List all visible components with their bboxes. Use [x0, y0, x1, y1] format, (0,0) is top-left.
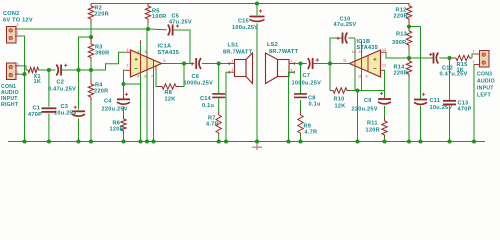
svg-text:0.1u: 0.1u	[309, 102, 322, 108]
connector CON3 audio input left	[475, 51, 490, 68]
svg-text:1: 1	[473, 60, 475, 64]
wire CON3 pin1 to ground	[473, 65, 476, 142]
svg-text:2: 2	[232, 60, 234, 64]
plus mark C3	[74, 106, 77, 109]
speaker LS2 8R.7WATT	[266, 53, 295, 84]
svg-text:0.1u: 0.1u	[202, 103, 215, 109]
power pin vertical 3 of IC1A from supply node	[146, 29, 148, 142]
svg-text:390R: 390R	[95, 51, 109, 57]
plus and minus marks IC1A	[135, 58, 138, 69]
svg-text:1: 1	[17, 71, 19, 75]
wire bias node to C11 branch	[409, 27, 421, 99]
pin end ticks LS2	[293, 62, 295, 74]
op-amp IC1A STA435	[131, 50, 162, 77]
junction on ground rail	[151, 139, 155, 143]
svg-text:0.47u.25V: 0.47u.25V	[48, 86, 76, 92]
power pin vertical of IC1B (nc)	[361, 40, 363, 90]
svg-text:220R: 220R	[95, 12, 109, 18]
svg-text:12K: 12K	[335, 104, 346, 110]
connector CON1 audio input right	[7, 63, 20, 80]
capacitor C6 1000u.25V output	[196, 58, 230, 69]
svg-text:1000u.25V: 1000u.25V	[184, 81, 214, 87]
wire CON2 ground down to bottom rail	[19, 36, 25, 142]
wire bias to IC1B pin 13	[385, 52, 409, 58]
svg-text:220R: 220R	[94, 89, 108, 95]
capacitor C7 1000u.25V output	[301, 58, 346, 69]
svg-text:C6: C6	[192, 74, 200, 80]
wire top supply rail	[91, 3, 409, 5]
svg-text:LS1: LS1	[228, 42, 239, 48]
node speaker/zobel junction	[217, 61, 221, 65]
junction on ground rail	[47, 139, 51, 143]
feedback resistor R10 12K	[330, 64, 385, 94]
wire bottom ground rail	[8, 141, 485, 143]
node output junction C5 bootstrap	[182, 61, 186, 65]
svg-text:C2: C2	[57, 80, 65, 86]
svg-text:1: 1	[232, 68, 234, 72]
svg-text:12K: 12K	[165, 97, 176, 103]
svg-text:390R: 390R	[392, 40, 406, 46]
svg-text:C9: C9	[364, 98, 372, 104]
capacitor C1 470P	[41, 70, 56, 142]
svg-text:AUDIO: AUDIO	[477, 79, 495, 85]
resistor R6 120R	[121, 116, 126, 142]
svg-text:C14: C14	[200, 96, 212, 102]
resistor R3 390R	[88, 37, 93, 70]
pin 2 stub of IC1A	[126, 69, 131, 71]
svg-text:STA435: STA435	[158, 50, 180, 56]
wire X1 to input node	[39, 69, 49, 71]
svg-text:1K: 1K	[34, 79, 42, 85]
svg-text:10u.25V: 10u.25V	[430, 105, 453, 111]
plus mark C11	[422, 93, 425, 96]
pin end ticks LS1	[228, 62, 230, 74]
plus mark C10	[336, 37, 339, 40]
junction on ground rail	[22, 139, 26, 143]
pin 1 stub of IC1A	[126, 51, 131, 53]
node R2/R3 bias junction	[89, 35, 93, 39]
svg-text:100R: 100R	[152, 14, 166, 20]
svg-text:C3: C3	[61, 104, 69, 110]
ground pin vertical of IC1A	[153, 60, 155, 142]
resistor R15 1K	[450, 54, 475, 61]
node bias bypass junction	[76, 68, 80, 72]
node CON1 pin1 ground junction	[22, 72, 26, 76]
svg-text:47u.25V: 47u.25V	[169, 20, 192, 26]
capacitor C3 10u.25V	[72, 70, 85, 142]
junction C15 at ground rail	[255, 139, 259, 143]
pin segments inside IC1B	[355, 55, 368, 72]
resistor X1 1K	[28, 67, 39, 72]
svg-text:100u.25V: 100u.25V	[232, 25, 258, 31]
power pin vertical of IC1B from C10	[354, 38, 356, 91]
svg-text:8R.7WATT: 8R.7WATT	[269, 49, 299, 55]
node output junction right	[328, 61, 332, 65]
node supply/R5/C5 junction	[146, 27, 150, 31]
svg-text:2: 2	[17, 63, 19, 67]
plus mark C6	[191, 62, 194, 65]
pin 13 stub of IC1B	[381, 51, 386, 53]
wire 6-12V supply from CON2 to R5 node	[19, 28, 148, 30]
junction on ground rail	[355, 139, 359, 143]
svg-text:C15: C15	[238, 19, 249, 25]
svg-text:R10: R10	[334, 97, 345, 103]
junction on ground rail	[76, 139, 80, 143]
capacitor C12 0.47u.25V	[409, 53, 450, 64]
junction on ground rail	[298, 139, 302, 143]
plus and minus marks IC1B	[373, 58, 376, 69]
ground pin vertical of IC1B	[367, 56, 369, 72]
svg-text:12: 12	[382, 64, 386, 68]
svg-text:9: 9	[366, 75, 368, 79]
svg-text:2: 2	[127, 64, 129, 68]
svg-text:13: 13	[382, 48, 386, 52]
node C2/R3/R4 junction	[89, 68, 93, 72]
plus mark C12	[429, 53, 432, 56]
capacitor C10 47u.25V bootstrap	[330, 33, 355, 64]
svg-text:5: 5	[164, 59, 166, 63]
svg-text:LEFT: LEFT	[477, 93, 491, 99]
svg-text:47u.25V: 47u.25V	[334, 22, 357, 28]
zobel resistor R9 4.7R	[298, 111, 303, 142]
zobel capacitor C14 0.1u	[212, 64, 225, 112]
svg-text:C7: C7	[303, 73, 311, 79]
resistor R12 220R	[406, 4, 411, 27]
svg-text:220R: 220R	[394, 14, 408, 20]
svg-text:8: 8	[138, 50, 140, 54]
capacitor C15 100u.25V supply filter	[250, 4, 265, 142]
svg-text:10u.25V: 10u.25V	[54, 111, 77, 117]
feedback resistor R8 12K	[156, 64, 184, 90]
svg-text:C5: C5	[172, 14, 180, 20]
zobel capacitor C8 0.1u	[294, 64, 307, 112]
wire pin2 to C4 branch	[124, 70, 127, 96]
power pin vertical 8 of IC1A (nc)	[140, 40, 142, 141]
svg-text:1: 1	[291, 68, 293, 72]
output pin 5 stub of IC1A	[162, 63, 167, 65]
svg-text:10: 10	[358, 75, 362, 79]
svg-text:120R: 120R	[366, 128, 380, 134]
node R13/R14 junction	[407, 56, 411, 60]
capacitor C2 0.47u.25V	[49, 65, 91, 76]
svg-text:11: 11	[343, 59, 347, 63]
svg-text:4.7R: 4.7R	[206, 122, 219, 128]
wire LS2 pin2 to ground	[289, 72, 295, 141]
resistor R14 220R	[406, 58, 411, 142]
capacitor C11 10u.25V	[414, 100, 427, 142]
ground symbol	[252, 142, 262, 151]
plus mark C2	[64, 64, 67, 67]
output pin 11 stub of IC1B	[345, 63, 350, 65]
svg-text:1000u.25V: 1000u.25V	[292, 81, 322, 87]
svg-text:470P: 470P	[28, 112, 42, 118]
svg-text:C11: C11	[430, 98, 441, 104]
capacitor C4 220u.25V	[117, 97, 130, 117]
speaker LS1 8R.7WATT	[229, 53, 253, 84]
capacitor C9 220u.25V	[378, 70, 391, 117]
node C15 top rail junction	[255, 1, 259, 5]
resistor R5 100R	[145, 4, 150, 30]
svg-text:1: 1	[17, 31, 19, 35]
wire bias node to bypass branch	[79, 37, 92, 70]
node R12/R13 bias junction	[407, 24, 411, 28]
resistor R11 120R	[382, 117, 387, 142]
svg-text:C1: C1	[33, 106, 41, 112]
node input junction	[47, 68, 51, 72]
node ground bus junction under IC1B	[355, 88, 359, 92]
connector CON2 6V TO 12V	[7, 27, 20, 44]
svg-text:220u.25V: 220u.25V	[102, 107, 128, 113]
junction on ground rail	[418, 139, 422, 143]
svg-text:IC1A: IC1A	[158, 44, 172, 50]
svg-text:470P: 470P	[458, 107, 472, 113]
svg-text:R8: R8	[165, 90, 173, 96]
plus mark C5	[176, 24, 179, 27]
resistor R2 220R	[88, 4, 93, 38]
node LS2/zobel junction	[298, 61, 302, 65]
svg-text:220u.25V: 220u.25V	[352, 107, 378, 113]
plus mark C7	[316, 58, 319, 61]
plus mark C4	[125, 93, 128, 96]
svg-text:4.7R: 4.7R	[305, 130, 318, 136]
svg-text:120R: 120R	[110, 127, 124, 133]
svg-text:15: 15	[359, 50, 363, 54]
junction on ground rail	[224, 139, 228, 143]
junction on ground rail	[407, 139, 411, 143]
svg-text:C4: C4	[104, 99, 112, 105]
wire ground bus to rail	[357, 91, 359, 142]
junction on ground rail	[217, 139, 221, 143]
junction on ground rail	[145, 139, 149, 143]
svg-text:R11: R11	[367, 121, 378, 127]
plus mark C9	[380, 92, 383, 95]
wire CON1 pin2 to X1	[19, 66, 28, 70]
plus mark C15	[259, 9, 262, 12]
svg-text:1: 1	[127, 48, 129, 52]
svg-text:220R: 220R	[394, 71, 408, 77]
node pin2 bus junction	[121, 82, 125, 86]
wire CON1 pin1 to ground wire	[19, 73, 25, 75]
svg-text:CON3: CON3	[477, 72, 492, 78]
junction on ground rail	[286, 139, 290, 143]
svg-text:7: 7	[151, 75, 153, 79]
svg-text:2: 2	[291, 60, 293, 64]
junction on ground rail	[447, 139, 451, 143]
svg-text:2: 2	[17, 23, 19, 27]
junction on ground rail	[382, 139, 386, 143]
svg-text:4: 4	[138, 75, 140, 79]
wire pin2 bus to ground pin	[124, 83, 141, 85]
pin segments inside IC1A	[141, 53, 154, 74]
op-amp IC1B STA435	[350, 50, 381, 77]
svg-text:RIGHT: RIGHT	[1, 102, 19, 108]
svg-text:2: 2	[473, 50, 475, 54]
wire staircase to op-amp pin 1	[91, 52, 126, 70]
junction on ground rail	[89, 139, 93, 143]
svg-text:CON2: CON2	[3, 11, 20, 17]
wire LS1 pin2 to ground	[226, 72, 229, 141]
zobel resistor R7 4.7R	[216, 111, 221, 142]
node C12/R15/C13 junction	[447, 56, 451, 60]
svg-text:1K: 1K	[457, 68, 465, 74]
svg-text:6: 6	[145, 75, 147, 79]
svg-text:3: 3	[145, 50, 147, 54]
svg-text:14: 14	[352, 50, 356, 54]
junction on ground rail	[138, 139, 142, 143]
wire output row to C6	[166, 63, 194, 65]
resistor R13 390R	[406, 27, 411, 59]
capacitor C13 470P	[443, 58, 456, 142]
junction on ground rail	[121, 139, 125, 143]
capacitor C5 47u.25V bootstrap	[148, 25, 190, 64]
pin 12 stub of IC1B	[381, 69, 386, 71]
svg-text:8R.7WATT: 8R.7WATT	[223, 50, 253, 56]
resistor R4 220R	[88, 70, 93, 142]
svg-text:R13: R13	[396, 32, 407, 38]
svg-text:INPUT: INPUT	[477, 86, 494, 92]
svg-text:LS2: LS2	[267, 42, 278, 48]
wire LS2 pin1 to junction	[295, 63, 301, 65]
junction on ground rail	[472, 139, 476, 143]
